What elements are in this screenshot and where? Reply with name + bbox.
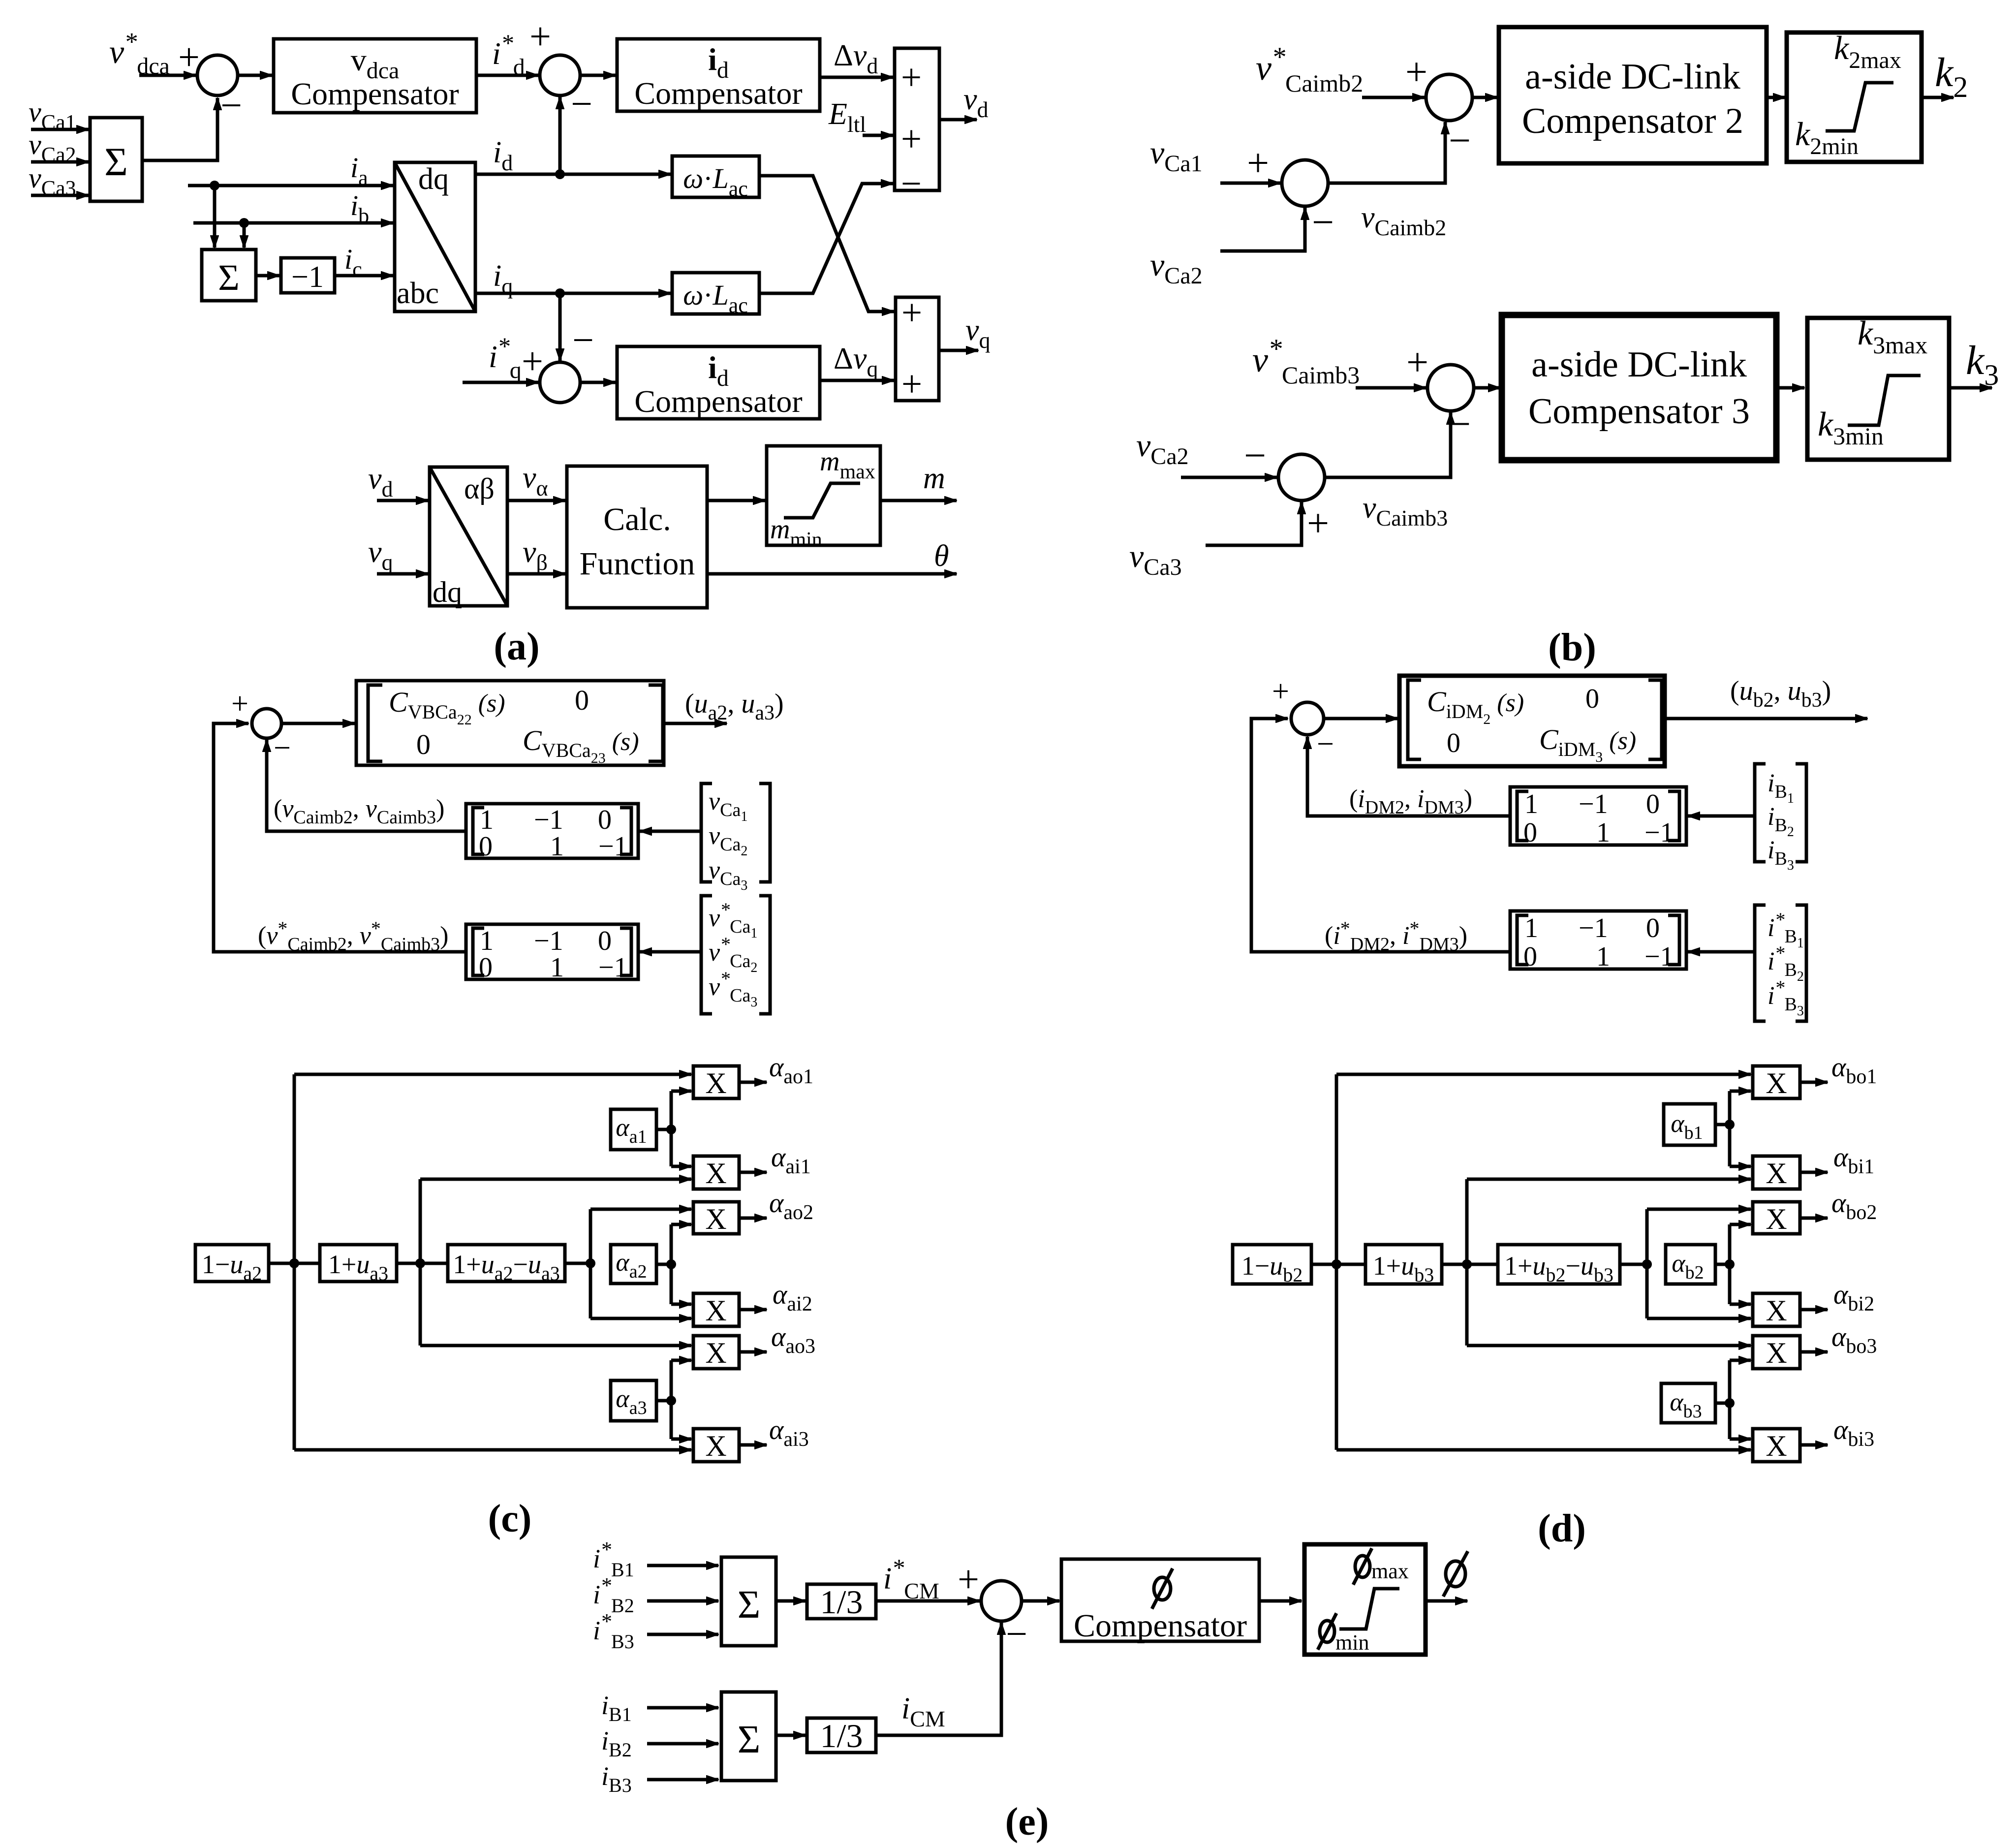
wire measured feedback from matrix1 to C-S1 <box>267 740 466 831</box>
block CVBC matrix <box>356 681 664 765</box>
multiplier X a3 <box>693 1202 739 1234</box>
vector vCa <box>701 783 712 882</box>
svg-text:Calc.: Calc. <box>603 501 671 537</box>
wire vCa3 into B-S4 <box>1206 502 1302 545</box>
wire summer to comp3 <box>1474 386 1500 390</box>
wire vCa vector into matrix1 <box>640 830 700 833</box>
wire vCa2 into B-S2 <box>1220 208 1305 251</box>
block reference matrix 2 (d) <box>1510 911 1686 969</box>
wire alpha-a3 output node <box>656 1399 671 1403</box>
wire omegaLac2 cross to R1 <box>759 184 893 293</box>
wire ia <box>188 184 393 188</box>
summer B-S2 <box>1282 160 1328 206</box>
svg-text:1: 1 <box>550 831 564 862</box>
block a-side DC-link Compensator 2 <box>1499 27 1767 163</box>
block 1/3 (measured) <box>807 1718 876 1753</box>
wire S2 to id compensator <box>580 74 616 77</box>
block vdca Compensator <box>274 39 476 113</box>
summer S1 <box>197 55 238 95</box>
svg-text:+: + <box>901 364 922 405</box>
svg-text:a-side DC-link: a-side DC-link <box>1531 344 1747 385</box>
wire node3 to Xa3 <box>590 1208 691 1211</box>
block 1-ua2 <box>195 1245 269 1282</box>
wire k3 output <box>1949 386 1992 390</box>
svg-text:+: + <box>1247 142 1269 185</box>
wire S3 to iq compensator <box>580 381 616 384</box>
output alpha bo3 <box>1800 1350 1828 1354</box>
svg-text:αβ: αβ <box>464 472 495 505</box>
svg-text:0: 0 <box>479 952 493 983</box>
svg-text:min: min <box>1335 1630 1369 1655</box>
svg-text:−1: −1 <box>598 952 628 983</box>
output alpha ai3 <box>739 1443 767 1447</box>
wire Sigma1 output to S1 <box>142 98 217 160</box>
svg-text:−1: −1 <box>1644 817 1674 848</box>
wire iq to S3 <box>558 293 562 361</box>
output alpha ai2 <box>739 1308 767 1312</box>
wire iq row <box>475 292 671 295</box>
output alpha bo2 <box>1800 1217 1828 1220</box>
node id junction <box>555 169 565 179</box>
label phi <box>1443 1551 1468 1597</box>
wire ub2 ub3 output <box>1665 717 1867 720</box>
summer B-S4 <box>1278 454 1325 501</box>
wire delta vd <box>820 76 893 79</box>
block 1+ub3 <box>1365 1245 1442 1284</box>
node ia junction <box>210 181 219 190</box>
svg-text:−1: −1 <box>598 831 628 862</box>
block Sigma 1 <box>90 118 142 201</box>
wire alpha-a2 output node <box>656 1263 671 1266</box>
svg-text:0: 0 <box>416 728 431 760</box>
multiplier X b3 <box>1753 1202 1800 1234</box>
wire Sigma2 to -1 <box>256 274 279 278</box>
wire vCa1 into B-S2 <box>1220 182 1280 185</box>
svg-text:X: X <box>705 1203 726 1235</box>
block 1/3 (references) <box>807 1584 876 1619</box>
svg-text:X: X <box>705 1430 726 1462</box>
block alpha a1 <box>611 1109 656 1150</box>
svg-text:0: 0 <box>1523 817 1537 848</box>
svg-text:−: − <box>1317 727 1334 761</box>
wire vCaimb2 feedback up to B-S1 <box>1328 122 1445 183</box>
multiplier X b5 <box>1753 1336 1800 1369</box>
node ib junction <box>239 218 249 228</box>
multiplier X b6 <box>1753 1429 1800 1462</box>
wire phi output <box>1426 1599 1467 1603</box>
svg-text:X: X <box>705 1294 726 1327</box>
svg-text:−: − <box>901 163 922 204</box>
svg-text:−1: −1 <box>534 926 563 956</box>
wire measured feedback from matrix1 to D-S1 <box>1307 737 1510 816</box>
multiplier X a4 <box>693 1293 739 1326</box>
svg-text:X: X <box>1766 1337 1787 1369</box>
svg-text:dq: dq <box>418 162 449 196</box>
wire ia drop into Sigma2 <box>213 186 217 248</box>
wire i*q into S3 <box>463 381 538 384</box>
svg-text:Compensator 3: Compensator 3 <box>1528 391 1750 432</box>
wire vq into ab/dq <box>377 572 428 576</box>
svg-text:Compensator: Compensator <box>291 76 459 111</box>
output alpha bi1 <box>1800 1171 1828 1174</box>
svg-text:1: 1 <box>480 926 494 956</box>
svg-text:+: + <box>231 687 248 720</box>
svg-text:0: 0 <box>1646 789 1660 819</box>
svg-text:dq: dq <box>433 576 462 608</box>
svg-text:a-side DC-link: a-side DC-link <box>1525 57 1740 97</box>
svg-text:+: + <box>958 1558 979 1600</box>
wire to compensator2 <box>1472 96 1497 99</box>
wire node2 to Xa5 <box>420 1344 691 1347</box>
svg-text:X: X <box>1766 1294 1787 1327</box>
svg-text:Σ: Σ <box>738 1583 761 1627</box>
wire node2 to Xa2 <box>420 1178 691 1181</box>
svg-text:−: − <box>1449 119 1471 162</box>
block measurement matrix 1 (d) <box>1510 787 1686 845</box>
wire calc to limiter <box>707 499 765 502</box>
block alpha b2 <box>1666 1245 1715 1284</box>
block 1+ub2-ub3 <box>1498 1245 1620 1284</box>
svg-text:−1: −1 <box>534 805 563 835</box>
wire iCM feedback up to summer <box>876 1623 1001 1735</box>
multiplier X a2 <box>693 1156 739 1189</box>
block alpha b1 <box>1664 1104 1715 1145</box>
block phi Compensator <box>1061 1559 1259 1641</box>
svg-text:0: 0 <box>598 805 612 835</box>
block Sigma (references) <box>721 1557 776 1646</box>
summer D-S1 <box>1291 702 1324 735</box>
block 1-ub2 <box>1233 1245 1311 1284</box>
wire vCaimb3 feedback up to B-S3 <box>1325 412 1451 477</box>
block -1 <box>281 258 335 293</box>
svg-text:θ: θ <box>934 539 949 573</box>
svg-text:1: 1 <box>1524 789 1538 819</box>
block reference matrix 2 <box>466 924 638 979</box>
wire C-S1 to CVBC matrix <box>281 722 355 725</box>
block CiDM matrix <box>1399 676 1665 766</box>
block k3 limiter <box>1807 318 1949 460</box>
block 1+ua3 <box>320 1245 397 1282</box>
wire Eltl <box>863 134 893 137</box>
svg-text:−: − <box>572 318 594 361</box>
wire vCa1 <box>31 128 89 131</box>
svg-text:+: + <box>1406 341 1428 384</box>
wire 1+ua3 to node2 <box>397 1262 448 1265</box>
wire id row <box>475 173 671 176</box>
wire vq output <box>939 349 978 352</box>
svg-text:−: − <box>1244 434 1266 477</box>
wire alpha-b1 output node <box>1715 1123 1730 1127</box>
vector iB <box>1755 764 1766 862</box>
output alpha ai1 <box>739 1171 767 1174</box>
svg-text:0: 0 <box>575 684 589 716</box>
svg-text:0: 0 <box>598 926 612 956</box>
vector i*B <box>1755 905 1766 1021</box>
summer C-S1 <box>252 709 281 738</box>
svg-text:(e): (e) <box>1005 1800 1049 1844</box>
node iq junction <box>555 288 565 298</box>
wire reference feedback from matrix2 into D-S1 <box>1251 719 1510 952</box>
output alpha bi2 <box>1800 1308 1828 1312</box>
wire id to S2 <box>558 97 562 174</box>
wire alpha-b2 output node <box>1715 1263 1730 1266</box>
wire ua2 ua3 output <box>664 722 727 725</box>
svg-text:−1: −1 <box>1579 913 1608 943</box>
output alpha ao1 <box>739 1081 767 1084</box>
svg-text:+: + <box>901 119 922 159</box>
block id Compensator (q-axis) <box>617 346 820 419</box>
wire Sigma1 to 1/3 <box>776 1599 806 1603</box>
svg-text:Function: Function <box>580 546 695 582</box>
wire vCa2 into B-S4 <box>1181 476 1277 479</box>
multiplier X a5 <box>693 1336 739 1369</box>
wire omegaLac1 cross to R2 <box>759 176 894 312</box>
wire 1+ub2-ub3 to node3 <box>1620 1263 1647 1266</box>
svg-text:0: 0 <box>1585 684 1599 714</box>
svg-text:Compensator: Compensator <box>634 384 802 419</box>
wires iB into Sigma2 <box>647 1706 718 1710</box>
svg-text:(c): (c) <box>488 1497 532 1540</box>
block alpha a2 <box>611 1245 656 1284</box>
svg-text:Σ: Σ <box>738 1718 761 1761</box>
svg-text:Compensator: Compensator <box>634 76 802 111</box>
svg-text:+: + <box>1307 502 1329 545</box>
summer B-S1 <box>1426 74 1472 121</box>
svg-text:0: 0 <box>1523 941 1537 972</box>
wire theta output <box>707 572 957 576</box>
svg-text:(b): (b) <box>1548 626 1596 669</box>
wire i*B vector into matrix2 <box>1688 950 1755 954</box>
wire reference feedback from matrix2 into C-S1 <box>214 723 466 952</box>
svg-text:Compensator 2: Compensator 2 <box>1522 101 1743 141</box>
svg-text:0: 0 <box>1646 913 1660 943</box>
svg-text:−1: −1 <box>1644 941 1674 972</box>
output alpha ao3 <box>739 1350 767 1354</box>
wire vd output <box>939 118 977 122</box>
svg-text:X: X <box>705 1067 726 1099</box>
wires i*B into Sigma1 <box>647 1564 718 1567</box>
svg-text:1: 1 <box>1596 817 1610 848</box>
summing block R2 <box>896 297 939 401</box>
svg-text:−1: −1 <box>1579 789 1608 819</box>
svg-text:+: + <box>1405 51 1427 94</box>
svg-text:Σ: Σ <box>104 139 128 184</box>
block phi limiter <box>1304 1544 1426 1655</box>
block a-side DC-link Compensator 3 <box>1502 315 1776 460</box>
wire v*dca into S1 <box>139 74 196 77</box>
wire node3 vertical <box>589 1209 592 1318</box>
summer B-S3 <box>1427 365 1474 411</box>
svg-text:m: m <box>923 462 945 495</box>
wire comp3 to limiter <box>1776 386 1804 390</box>
wire D-S1 to CiDM matrix <box>1324 717 1398 720</box>
summer S3 <box>540 362 580 403</box>
wire alpha-a1 output node <box>656 1128 671 1131</box>
wire node3 to Xa4 <box>590 1317 691 1320</box>
wire iB vector into matrix1 <box>1688 814 1755 818</box>
svg-text:X: X <box>1766 1430 1787 1462</box>
wire vCa3 <box>31 194 89 197</box>
vector v*Ca <box>701 896 712 1014</box>
svg-text:Compensator: Compensator <box>1074 1608 1247 1644</box>
svg-text:1: 1 <box>1524 913 1538 943</box>
wire vCa2 <box>31 160 89 164</box>
svg-text:abc: abc <box>397 277 439 310</box>
wire 1+ub3 to node2 <box>1442 1263 1498 1266</box>
block m limiter <box>767 446 880 545</box>
block Calc Function <box>567 466 707 608</box>
svg-text:−: − <box>1449 403 1471 446</box>
wire 1-ub2 to node1 <box>1311 1263 1365 1266</box>
wire ib <box>193 221 393 225</box>
svg-text:Σ: Σ <box>218 257 240 298</box>
wire vbeta <box>507 572 565 576</box>
summer E-S1 <box>981 1581 1022 1621</box>
wire node1 vertical <box>293 1074 296 1450</box>
svg-text:X: X <box>1766 1157 1787 1190</box>
wire ib drop into Sigma2 <box>243 223 246 248</box>
svg-text:−: − <box>274 731 291 765</box>
svg-text:−: − <box>1006 1612 1027 1655</box>
output alpha bo1 <box>1800 1081 1828 1084</box>
block alpha a3 <box>611 1380 656 1421</box>
wire compensator to phi limiter <box>1259 1599 1302 1603</box>
svg-text:1: 1 <box>480 805 494 835</box>
block omega Lac 1 <box>672 156 759 197</box>
wire v*Caimb2 into summer <box>1362 96 1425 99</box>
wire alpha-b3 output node <box>1715 1402 1730 1405</box>
svg-text:+: + <box>529 15 551 58</box>
svg-text:(d): (d) <box>1538 1507 1586 1550</box>
svg-text:X: X <box>1766 1067 1787 1099</box>
svg-text:(a): (a) <box>494 625 539 668</box>
block omega Lac 2 <box>672 273 759 314</box>
wire 1+ua2-ua3 to node3 <box>565 1262 590 1265</box>
svg-text:+: + <box>1272 675 1289 708</box>
block Sigma 2 <box>202 250 256 301</box>
svg-text:−1: −1 <box>291 260 324 294</box>
svg-text:max: max <box>1371 1559 1409 1583</box>
block measurement matrix 1 <box>466 804 638 858</box>
wire node1 to Xa1 <box>294 1073 691 1076</box>
block id Compensator (d-axis) <box>617 39 820 111</box>
svg-text:−: − <box>220 84 242 126</box>
wire S1 to vdca compensator <box>238 74 272 77</box>
multiplier X a6 <box>693 1429 739 1462</box>
wire 1/3 to summer <box>876 1599 980 1603</box>
block 1+ua2-ua3 <box>448 1245 565 1282</box>
wire node1 to Xa6 <box>294 1448 691 1452</box>
svg-text:X: X <box>1766 1203 1787 1235</box>
wire delta vq <box>820 379 894 382</box>
output alpha ao2 <box>739 1217 767 1220</box>
svg-text:1/3: 1/3 <box>820 1583 863 1621</box>
svg-text:1/3: 1/3 <box>820 1717 863 1754</box>
svg-text:+: + <box>901 57 922 98</box>
svg-text:X: X <box>705 1157 726 1190</box>
wire ic <box>335 274 393 278</box>
svg-text:0: 0 <box>479 831 493 862</box>
summer S2 <box>540 55 580 95</box>
multiplier X b4 <box>1753 1293 1800 1326</box>
svg-text:−: − <box>571 82 592 125</box>
svg-text:1: 1 <box>1596 941 1610 972</box>
wire 1-ua2 to node1 <box>269 1262 320 1265</box>
multiplier X a1 <box>693 1066 739 1098</box>
wire vdca comp to S2 <box>476 74 538 77</box>
wire valpha <box>507 499 565 502</box>
svg-text:X: X <box>705 1337 726 1369</box>
wire v*Caimb3 into summer <box>1356 386 1426 390</box>
wire node2 vertical <box>419 1179 422 1346</box>
wire vd into ab/dq <box>377 499 428 502</box>
wire summer to phi compensator <box>1022 1599 1059 1603</box>
block abc to dq transform <box>395 162 475 312</box>
svg-text:0: 0 <box>1447 728 1460 758</box>
svg-text:1: 1 <box>550 952 564 983</box>
svg-text:−: − <box>1312 201 1334 244</box>
wire v*Ca vector into matrix2 <box>640 950 700 954</box>
block k2 limiter <box>1787 32 1922 162</box>
block alpha b3 <box>1661 1383 1715 1423</box>
block Sigma (measured) <box>721 1692 776 1781</box>
wire m output <box>880 499 957 502</box>
svg-text:+: + <box>901 292 922 333</box>
output alpha bi3 <box>1800 1443 1828 1447</box>
wire comp2 to limiter <box>1767 96 1785 99</box>
block alphabeta/dq transform <box>430 467 507 606</box>
wire Sigma2 to 1/3 <box>776 1734 806 1737</box>
multiplier X b2 <box>1753 1156 1800 1189</box>
summing block R1 <box>895 48 939 190</box>
wire k2 output <box>1922 96 1954 99</box>
multiplier X b1 <box>1753 1066 1800 1098</box>
